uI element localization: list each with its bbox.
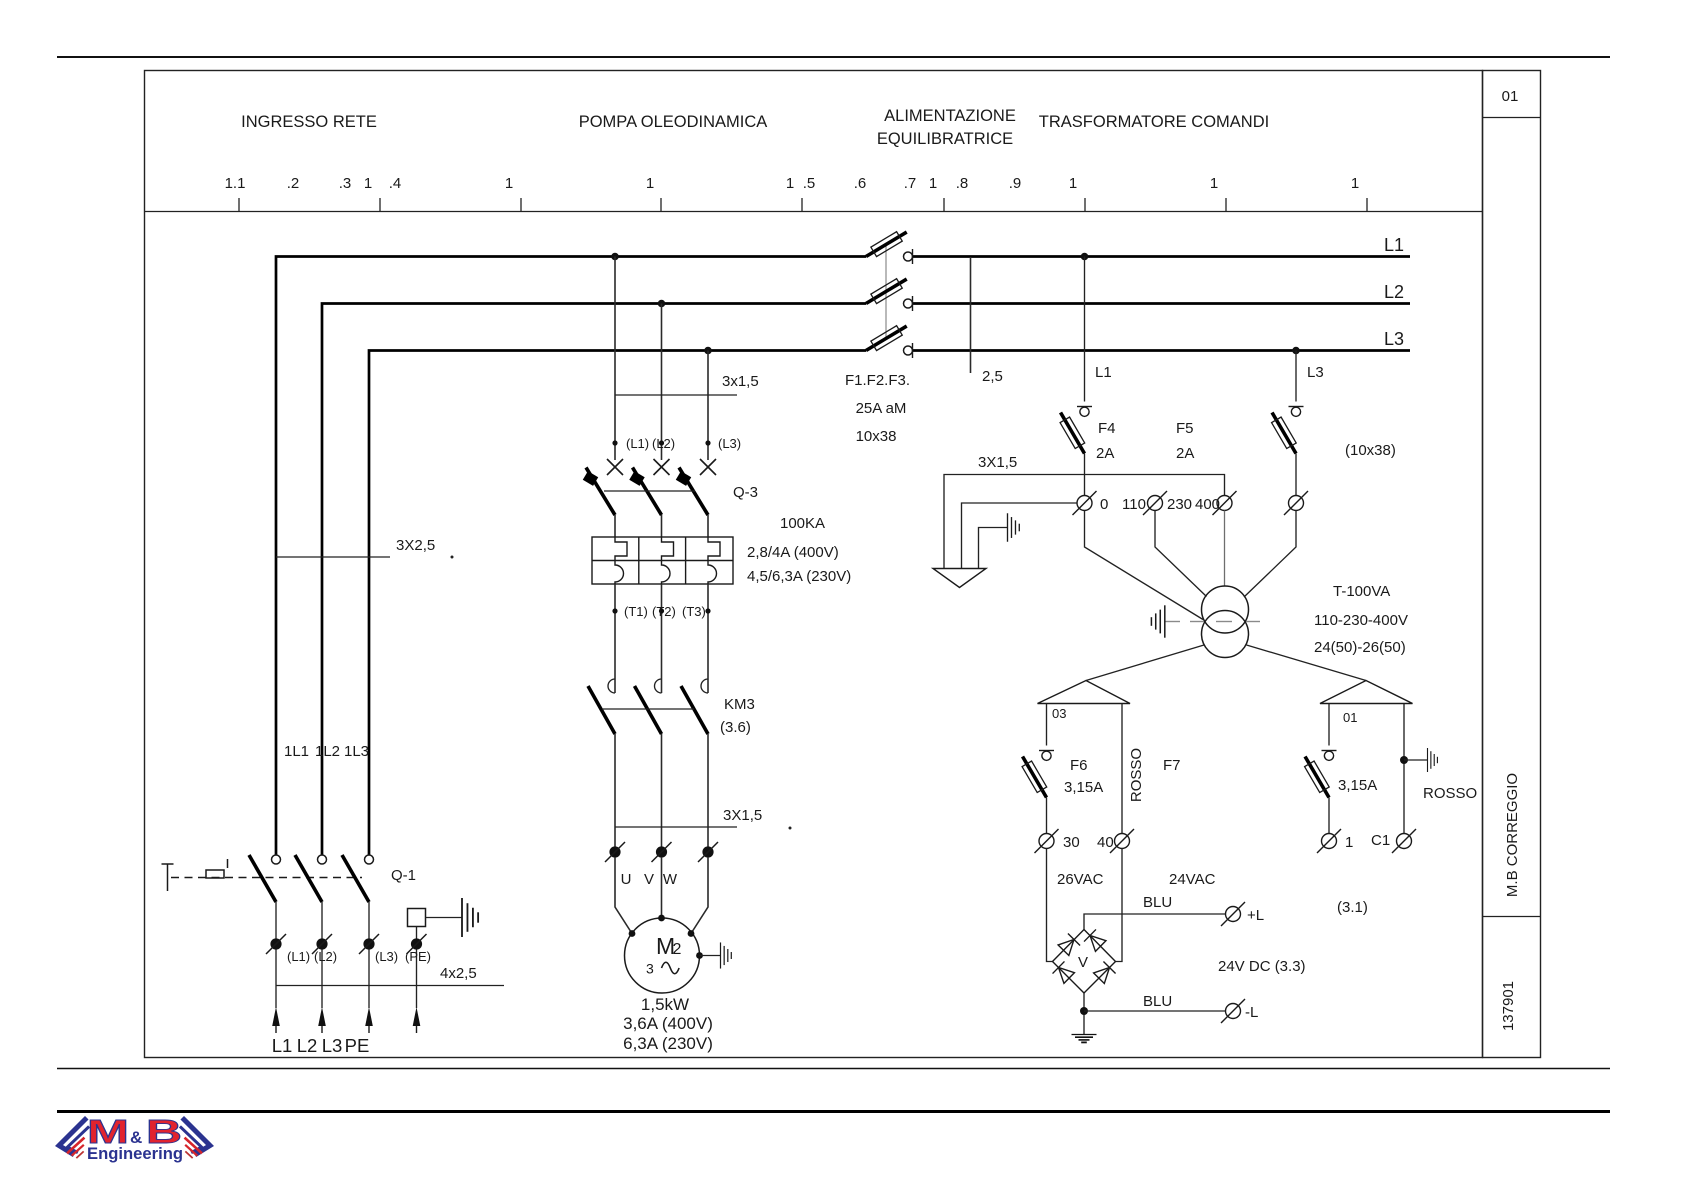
svg-text:4x2,5: 4x2,5: [440, 965, 477, 982]
svg-text:L2: L2: [1384, 282, 1404, 302]
svg-text:L3: L3: [322, 1035, 343, 1056]
terminal 40: [1110, 829, 1134, 853]
motor M2: [625, 918, 700, 993]
screen dashes: [1165, 621, 1260, 623]
svg-text:F5: F5: [1176, 420, 1194, 437]
svg-text:1: 1: [364, 175, 372, 192]
svg-text:BLU: BLU: [1143, 993, 1172, 1010]
title box divider: [1483, 916, 1541, 918]
svg-text:.8: .8: [956, 175, 969, 192]
DC earth: [1072, 1035, 1097, 1043]
wires below blades: [614, 515, 616, 537]
svg-text:Q-1: Q-1: [391, 867, 416, 884]
terminal 110/230: [1143, 491, 1167, 515]
svg-text:1: 1: [1345, 834, 1353, 851]
fuse F2: [863, 274, 912, 311]
Q-1 handle mechanism: [162, 859, 228, 891]
svg-text:L3: L3: [1384, 329, 1404, 349]
node on L2: [658, 300, 666, 308]
svg-text:.7: .7: [904, 175, 917, 192]
PE earth: [426, 917, 463, 919]
svg-text:0: 0: [1100, 496, 1108, 513]
svg-text:24VAC: 24VAC: [1169, 871, 1216, 888]
node to earth ROSSO: [1400, 756, 1408, 764]
ruler ticks: [239, 198, 1367, 212]
right winding taps: [1328, 704, 1330, 746]
svg-text:1: 1: [786, 175, 794, 192]
svg-text:26VAC: 26VAC: [1057, 871, 1104, 888]
node on L1: [611, 253, 619, 261]
bridge feed wires: [1047, 849, 1053, 962]
svg-text:L1: L1: [1095, 364, 1112, 381]
wires to motor terminals: [614, 734, 616, 852]
fuse F6: [1018, 754, 1051, 801]
wire L1 bus: [276, 257, 866, 856]
breaker Q-3: [583, 459, 716, 537]
contactor KM3: [588, 679, 708, 734]
svg-text:3,15A: 3,15A: [1338, 777, 1377, 794]
svg-text:(3.6): (3.6): [720, 719, 751, 736]
svg-text:2A: 2A: [1176, 445, 1194, 462]
logo right wing: [181, 1120, 210, 1158]
motor terminals U V W: [605, 842, 625, 862]
svg-text:110-230-400V: 110-230-400V: [1314, 612, 1408, 629]
-L output: [1083, 993, 1085, 1034]
svg-text:BLU: BLU: [1143, 894, 1172, 911]
svg-text:EQUILIBRATRICE: EQUILIBRATRICE: [877, 130, 1013, 148]
secondary wires: [1086, 645, 1204, 681]
svg-text:2,8/4A (400V): 2,8/4A (400V): [747, 544, 839, 561]
svg-text:3x1,5: 3x1,5: [722, 373, 759, 390]
svg-text:(3.1): (3.1): [1337, 899, 1368, 916]
svg-text:(L1): (L1): [626, 436, 649, 451]
fuse F3: [863, 321, 912, 358]
pole 2: [654, 459, 670, 475]
svg-text:1: 1: [929, 175, 937, 192]
pole 1: [607, 459, 623, 475]
svg-text:Q-3: Q-3: [733, 484, 758, 501]
primary wires into transformer: [1085, 511, 1204, 620]
svg-text:L1: L1: [272, 1035, 293, 1056]
svg-text:TRASFORMATORE COMANDI: TRASFORMATORE COMANDI: [1039, 113, 1269, 131]
sheet number box 01: [1483, 117, 1541, 119]
wire L3 bus: [369, 351, 866, 856]
svg-text:ROSSO: ROSSO: [1423, 785, 1477, 802]
terminal C1: [1392, 829, 1416, 853]
wire size 4x2,5 marker: [276, 985, 504, 987]
terminal 30: [1035, 829, 1059, 853]
svg-text:1: 1: [1069, 175, 1077, 192]
node L1 tap: [1081, 253, 1089, 261]
svg-text:400: 400: [1195, 496, 1220, 513]
fuse gang link: [885, 246, 887, 338]
svg-text:2: 2: [673, 941, 682, 958]
svg-text:110: 110: [1122, 496, 1146, 513]
+L output: [1084, 914, 1226, 930]
svg-text:V: V: [1078, 954, 1088, 971]
wire stub 2,5: [970, 257, 972, 373]
svg-text:(L2): (L2): [314, 949, 337, 964]
pole 3: [700, 459, 716, 475]
svg-text:03: 03: [1052, 706, 1066, 721]
svg-text:137901: 137901: [1500, 981, 1517, 1031]
svg-text:L1: L1: [1384, 235, 1404, 255]
svg-text:(L1): (L1): [287, 949, 310, 964]
svg-text:6,3A (230V): 6,3A (230V): [623, 1034, 713, 1053]
terminal nodes (L1)(L2)(L3): [612, 440, 617, 445]
wire size 3x1,5 marker: [615, 394, 737, 396]
svg-text:3: 3: [646, 961, 654, 977]
svg-text:4,5/6,3A (230V): 4,5/6,3A (230V): [747, 568, 851, 585]
svg-text:(10x38): (10x38): [1345, 442, 1396, 459]
fuse 3,15A right: [1300, 754, 1333, 801]
svg-text:M.B CORREGGIO: M.B CORREGGIO: [1504, 773, 1521, 897]
svg-text:25A aM: 25A aM: [856, 400, 907, 417]
transformer screen earth: [1151, 605, 1164, 637]
svg-text:.5: .5: [803, 175, 816, 192]
svg-text:.4: .4: [389, 175, 402, 192]
svg-text:F6: F6: [1070, 757, 1088, 774]
svg-text:1L3: 1L3: [344, 743, 369, 760]
svg-text:ALIMENTAZIONE: ALIMENTAZIONE: [884, 107, 1016, 125]
right secondary winding arrow: [1320, 681, 1413, 704]
left secondary winding arrow: [1038, 681, 1131, 704]
pump drop wires: [614, 257, 616, 461]
svg-text:3X1,5: 3X1,5: [978, 454, 1017, 471]
svg-text:10x38: 10x38: [856, 428, 897, 445]
input terminals (L1)(L2)(L3)(PE): [266, 934, 286, 954]
svg-text:3X1,5: 3X1,5: [723, 807, 762, 824]
svg-text:L3: L3: [1307, 364, 1324, 381]
svg-text:T-100VA: T-100VA: [1333, 583, 1390, 600]
svg-text:01: 01: [1502, 88, 1519, 105]
column ruler line: [145, 211, 1483, 213]
svg-text:(PE): (PE): [405, 949, 431, 964]
svg-text:30: 30: [1063, 834, 1080, 851]
schematic frame: [145, 71, 1483, 1058]
svg-text:3,6A (400V): 3,6A (400V): [623, 1014, 713, 1033]
svg-text:.9: .9: [1009, 175, 1022, 192]
svg-text:1.1: 1.1: [225, 175, 246, 192]
svg-text:W: W: [663, 871, 678, 888]
transformer T-100VA: [1202, 586, 1249, 633]
svg-text:ROSSO: ROSSO: [1128, 748, 1145, 802]
terminal 0: [1073, 491, 1097, 515]
title column frame: [1483, 71, 1541, 1058]
svg-text:01: 01: [1343, 710, 1357, 725]
terminal nodes (T1)(T2)(T3): [614, 584, 616, 693]
svg-text:L2: L2: [297, 1035, 318, 1056]
supply arrow: [933, 569, 986, 588]
svg-text:(T2): (T2): [652, 604, 676, 619]
svg-text:(L2): (L2): [652, 436, 675, 451]
bottom rule thick: [57, 1110, 1610, 1113]
svg-text:.3: .3: [339, 175, 352, 192]
trip arcs: [615, 561, 624, 585]
svg-text:40: 40: [1097, 834, 1114, 851]
svg-text:V: V: [644, 871, 654, 888]
svg-text:+L: +L: [1247, 907, 1264, 924]
node on L3: [704, 347, 712, 355]
wire size 3X2,5 marker: [276, 556, 390, 558]
wire L2 bus: [322, 304, 866, 856]
linkage: [604, 490, 695, 492]
thermal overload block Q-3: [592, 537, 733, 584]
motor earth: [700, 955, 721, 957]
svg-text:1L1: 1L1: [284, 743, 309, 760]
svg-text:PE: PE: [345, 1035, 370, 1056]
logo left wing: [59, 1120, 88, 1158]
fuse F4: [1077, 407, 1092, 417]
svg-text:1: 1: [646, 175, 654, 192]
svg-text:230: 230: [1167, 496, 1192, 513]
svg-text:24(50)-26(50): 24(50)-26(50): [1314, 639, 1406, 656]
wire size 3X1,5 marker: [615, 826, 737, 828]
svg-text:F4: F4: [1098, 420, 1116, 437]
heater elements: [615, 537, 627, 561]
fuse F5: [1289, 407, 1304, 417]
wires below Q-1: [275, 902, 277, 1008]
svg-text:2,5: 2,5: [982, 368, 1003, 385]
svg-text:(L3): (L3): [718, 436, 741, 451]
rectifier bridge V: [1053, 930, 1116, 994]
incoming arrows: [272, 1007, 420, 1026]
svg-text:(T1): (T1): [624, 604, 648, 619]
svg-text:.2: .2: [287, 175, 300, 192]
svg-text:C1: C1: [1371, 832, 1390, 849]
switch Q-1 poles: [249, 855, 374, 902]
earth comb near terminal 0: [1008, 513, 1020, 542]
terminal 400: [1213, 491, 1237, 515]
svg-text:F7: F7: [1163, 757, 1181, 774]
motor leads: [615, 857, 632, 934]
svg-text:3X2,5: 3X2,5: [396, 537, 435, 554]
svg-text:24V DC (3.3): 24V DC (3.3): [1218, 958, 1306, 975]
svg-text:1: 1: [505, 175, 513, 192]
svg-text:1,5kW: 1,5kW: [641, 995, 689, 1014]
svg-text:1: 1: [1210, 175, 1218, 192]
PE link box: [408, 909, 426, 927]
svg-text:POMPA OLEODINAMICA: POMPA OLEODINAMICA: [579, 113, 768, 131]
left winding taps: [1046, 704, 1048, 746]
svg-text:.6: .6: [854, 175, 867, 192]
svg-text:U: U: [621, 871, 632, 888]
svg-text:100KA: 100KA: [780, 515, 825, 532]
svg-text:F1.F2.F3.: F1.F2.F3.: [845, 372, 910, 389]
svg-text:INGRESSO RETE: INGRESSO RETE: [241, 113, 377, 131]
svg-text:(T3): (T3): [682, 604, 706, 619]
svg-text:-L: -L: [1245, 1004, 1258, 1021]
terminal 1: [1317, 829, 1341, 853]
svg-text:1: 1: [1351, 175, 1359, 192]
Q-1 linkage dashed: [171, 877, 362, 879]
fuse F1: [863, 227, 912, 264]
ruler numbers: [225, 175, 1360, 192]
svg-text:Engineering: Engineering: [87, 1144, 183, 1163]
bottom rule thin: [57, 1068, 1610, 1070]
top border rule: [57, 56, 1610, 58]
svg-text:1L2: 1L2: [315, 743, 340, 760]
svg-text:2A: 2A: [1096, 445, 1114, 462]
svg-text:(L3): (L3): [375, 949, 398, 964]
node L3 tap: [1292, 347, 1300, 355]
svg-text:3,15A: 3,15A: [1064, 779, 1103, 796]
svg-text:KM3: KM3: [724, 696, 755, 713]
